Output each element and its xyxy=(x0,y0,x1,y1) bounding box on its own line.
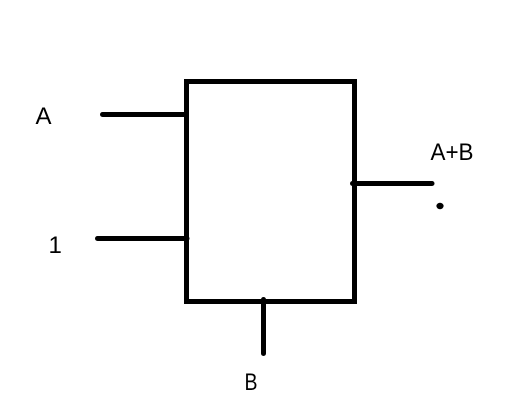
svg-text:1: 1 xyxy=(49,232,62,259)
svg-text:A: A xyxy=(36,103,52,130)
svg-text:A+B: A+B xyxy=(431,139,474,166)
svg-text:B: B xyxy=(245,369,258,395)
